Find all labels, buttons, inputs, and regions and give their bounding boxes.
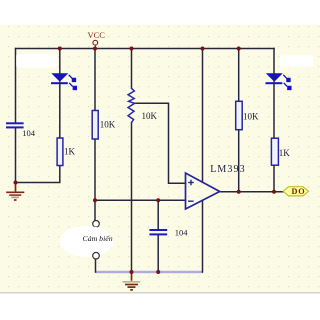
svg-text:1K: 1K	[279, 148, 291, 158]
svg-text:Cảm biến: Cảm biến	[83, 234, 113, 243]
svg-text:VCC: VCC	[88, 30, 106, 40]
svg-text:104: 104	[175, 228, 189, 238]
svg-text:104: 104	[22, 128, 36, 138]
svg-text:10K: 10K	[243, 112, 259, 122]
svg-text:10K: 10K	[100, 120, 116, 130]
svg-text:1K: 1K	[64, 146, 76, 156]
svg-text:LM393: LM393	[210, 164, 246, 175]
svg-text:10K: 10K	[142, 111, 158, 121]
svg-text:DO: DO	[292, 187, 306, 196]
